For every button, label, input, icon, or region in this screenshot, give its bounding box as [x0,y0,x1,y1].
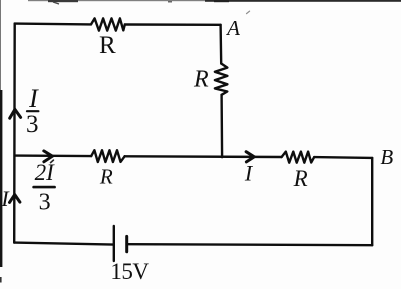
current arrow 2I/3 (rightward on middle wire) [44,151,53,162]
svg-text:I: I [0,186,10,211]
svg-text:R: R [99,165,113,189]
wire: middle horizontal, right segment to node B corner [314,156,372,159]
svg-text:R: R [193,67,209,93]
wire: branch A vertical, upper segment [219,25,222,64]
scan edge artifacts (decorative, unlabelled) [28,0,208,1]
current arrow I/3 (upward on left wire) [10,109,21,118]
wire: left vertical side (top-left corner to bottom-left corner) [13,24,16,243]
svg-text:B: B [380,145,393,169]
current arrow I (rightward on middle wire, before right resistor) [246,152,254,162]
label 2I/3 fraction bar [34,186,55,189]
svg-text:3: 3 [26,111,39,138]
svg-text:2I: 2I [35,160,56,185]
resistor R (top) [91,18,125,30]
wire: top side, right segment to node A corner [125,23,221,26]
wire: bottom side, right segment to battery [127,244,372,245]
battery 15V: long plate (positive) [113,226,115,261]
wire: branch A vertical, lower segment to junction [220,95,223,157]
label I/3 fraction bar [27,110,38,112]
svg-text:R: R [293,166,308,191]
svg-text:A: A [225,16,240,40]
svg-text:R: R [99,32,116,59]
wire: right vertical side [371,158,373,245]
wire: middle horizontal, centre segment through junction to right resistor [125,155,282,158]
svg-text:15V: 15V [110,259,149,284]
svg-text:I: I [28,84,39,113]
wire: top side, left segment [15,22,91,25]
resistor R (vertical branch) [215,64,228,95]
current arrow I (upward on left wire, lower) [10,195,20,203]
wire: bottom side, left segment from battery [14,243,114,245]
battery 15V: short plate (negative) [125,236,128,251]
resistor R (middle left) [91,150,124,162]
resistor R (middle right) [282,152,315,163]
svg-text:I: I [244,161,254,186]
svg-text:3: 3 [39,189,51,215]
wire: middle horizontal, junction at left wire to resistor [15,154,91,157]
